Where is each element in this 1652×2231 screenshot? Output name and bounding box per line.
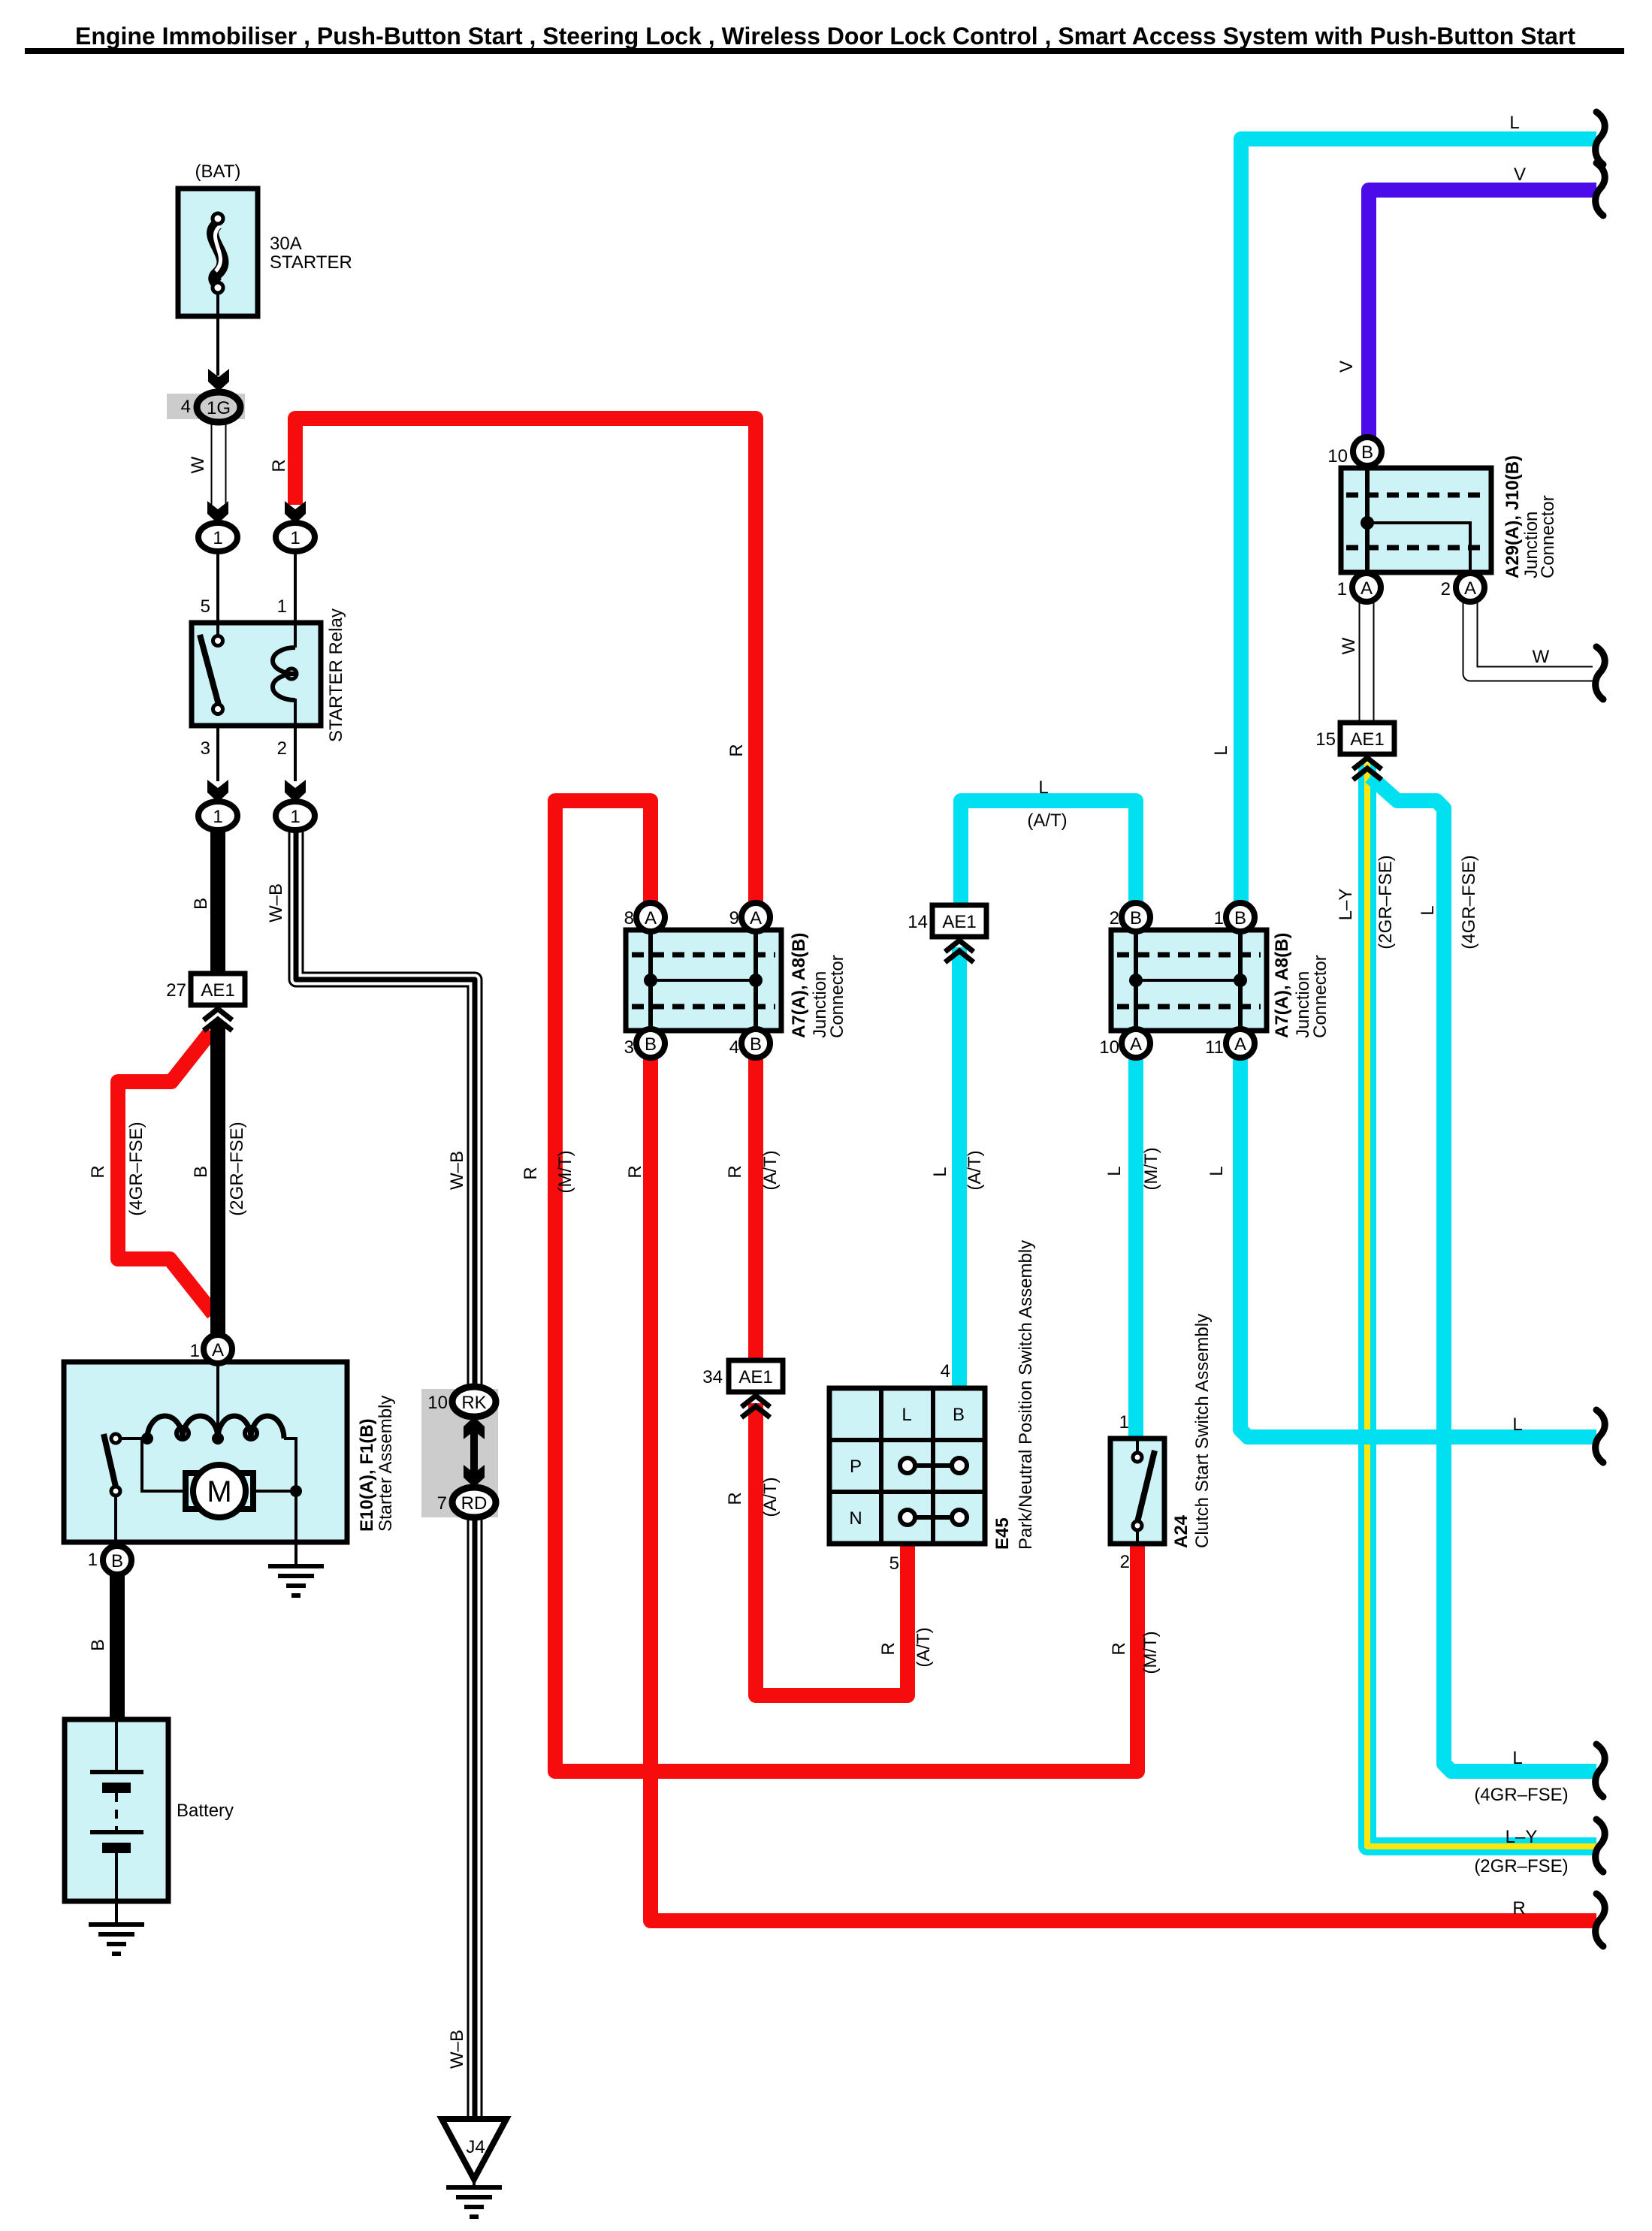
svg-text:AE1: AE1 xyxy=(942,912,976,932)
svg-text:Connector: Connector xyxy=(1310,955,1330,1038)
svg-text:L: L xyxy=(1509,113,1519,133)
svg-text:1: 1 xyxy=(1214,908,1224,928)
svg-text:Engine Immobiliser , Push-Butt: Engine Immobiliser , Push-Button Start ,… xyxy=(75,23,1575,50)
svg-text:R: R xyxy=(625,1165,645,1178)
svg-text:B: B xyxy=(1361,442,1373,463)
svg-text:4: 4 xyxy=(941,1361,950,1381)
svg-text:B: B xyxy=(1234,908,1246,928)
svg-text:A7(A), A8(B): A7(A), A8(B) xyxy=(789,933,809,1038)
svg-text:M: M xyxy=(207,1475,231,1508)
svg-text:B: B xyxy=(191,1166,211,1178)
svg-text:(A/T): (A/T) xyxy=(914,1627,934,1667)
svg-text:W–B: W–B xyxy=(447,1151,467,1190)
svg-text:3: 3 xyxy=(201,738,210,759)
svg-text:V: V xyxy=(1336,361,1357,373)
svg-text:STARTER: STARTER xyxy=(270,252,352,273)
svg-text:Starter Assembly: Starter Assembly xyxy=(376,1396,396,1532)
svg-text:1: 1 xyxy=(277,596,287,617)
svg-text:A: A xyxy=(1464,578,1476,599)
svg-text:B: B xyxy=(750,1034,762,1055)
svg-text:1: 1 xyxy=(213,528,222,548)
svg-text:R: R xyxy=(725,1492,745,1505)
svg-text:1G: 1G xyxy=(207,398,231,418)
svg-text:1: 1 xyxy=(213,807,222,827)
svg-text:AE1: AE1 xyxy=(738,1367,772,1387)
svg-text:B: B xyxy=(88,1639,108,1651)
svg-text:J4: J4 xyxy=(466,2137,485,2157)
svg-text:W–B: W–B xyxy=(266,883,286,922)
svg-text:(M/T): (M/T) xyxy=(1140,1631,1161,1674)
svg-text:B: B xyxy=(1130,908,1142,928)
svg-text:A: A xyxy=(212,1340,224,1360)
svg-text:L–Y: L–Y xyxy=(1506,1827,1538,1847)
svg-text:8: 8 xyxy=(624,908,634,928)
svg-text:A: A xyxy=(1361,578,1373,599)
svg-text:1: 1 xyxy=(1337,579,1347,599)
svg-text:A: A xyxy=(1234,1034,1246,1055)
svg-text:(BAT): (BAT) xyxy=(195,162,241,182)
svg-text:B: B xyxy=(111,1551,123,1571)
svg-text:V: V xyxy=(1514,165,1526,185)
svg-text:10: 10 xyxy=(1099,1037,1119,1058)
svg-text:A: A xyxy=(1130,1034,1142,1055)
svg-text:B: B xyxy=(645,1034,657,1055)
svg-text:3: 3 xyxy=(624,1037,634,1058)
svg-text:AE1: AE1 xyxy=(1350,729,1384,750)
svg-text:R: R xyxy=(726,744,747,756)
svg-text:L: L xyxy=(930,1167,950,1176)
svg-text:E45: E45 xyxy=(992,1517,1013,1550)
svg-text:L–Y: L–Y xyxy=(1336,889,1356,921)
svg-text:L: L xyxy=(1512,1748,1522,1768)
svg-text:A: A xyxy=(645,908,657,928)
svg-text:(4GR–FSE): (4GR–FSE) xyxy=(1459,855,1479,949)
svg-text:34: 34 xyxy=(702,1367,723,1387)
svg-text:AE1: AE1 xyxy=(201,980,234,1001)
svg-text:(2GR–FSE): (2GR–FSE) xyxy=(227,1122,247,1215)
svg-text:7: 7 xyxy=(437,1493,447,1514)
svg-text:27: 27 xyxy=(166,980,186,1001)
svg-text:L: L xyxy=(902,1405,911,1425)
svg-text:B: B xyxy=(191,898,211,910)
svg-text:L: L xyxy=(1207,1166,1227,1176)
svg-text:30A: 30A xyxy=(270,234,302,254)
svg-text:W: W xyxy=(188,456,208,473)
svg-text:2: 2 xyxy=(277,738,287,759)
svg-text:(4GR–FSE): (4GR–FSE) xyxy=(1474,1785,1568,1805)
svg-text:A24: A24 xyxy=(1171,1514,1191,1548)
svg-text:RK: RK xyxy=(461,1393,486,1413)
svg-text:4: 4 xyxy=(729,1037,739,1058)
svg-text:RD: RD xyxy=(461,1493,488,1514)
svg-text:(M/T): (M/T) xyxy=(555,1150,575,1193)
svg-text:L: L xyxy=(1104,1166,1125,1176)
svg-text:R: R xyxy=(269,459,289,472)
svg-text:L: L xyxy=(1512,1414,1522,1435)
svg-text:(A/T): (A/T) xyxy=(1027,811,1067,831)
svg-text:1: 1 xyxy=(190,1341,200,1361)
svg-text:R: R xyxy=(1109,1642,1129,1655)
svg-text:1: 1 xyxy=(290,528,300,548)
svg-text:R: R xyxy=(88,1165,108,1178)
svg-text:Park/Neutral Position Switch A: Park/Neutral Position Switch Assembly xyxy=(1016,1240,1036,1550)
svg-text:Connector: Connector xyxy=(827,955,847,1038)
svg-text:10: 10 xyxy=(427,1393,448,1413)
svg-text:A: A xyxy=(750,908,762,928)
svg-text:14: 14 xyxy=(908,912,928,932)
svg-text:Connector: Connector xyxy=(1538,495,1558,578)
svg-text:(A/T): (A/T) xyxy=(965,1150,985,1190)
svg-text:A29(A), J10(B): A29(A), J10(B) xyxy=(1503,455,1523,578)
svg-text:R: R xyxy=(878,1642,898,1655)
svg-text:E10(A), F1(B): E10(A), F1(B) xyxy=(357,1418,377,1532)
svg-text:Clutch Start Switch Assembly: Clutch Start Switch Assembly xyxy=(1192,1314,1213,1548)
svg-text:9: 9 xyxy=(729,908,739,928)
svg-text:10: 10 xyxy=(1327,446,1348,466)
svg-text:4: 4 xyxy=(181,397,191,417)
svg-text:W: W xyxy=(1339,637,1359,654)
svg-text:B: B xyxy=(953,1405,965,1425)
svg-text:Battery: Battery xyxy=(177,1801,234,1821)
svg-text:2: 2 xyxy=(1441,579,1451,599)
svg-text:P: P xyxy=(850,1457,862,1477)
svg-text:1: 1 xyxy=(290,807,300,827)
svg-text:(A/T): (A/T) xyxy=(760,1477,781,1517)
svg-text:R: R xyxy=(725,1165,745,1178)
svg-text:(M/T): (M/T) xyxy=(1141,1147,1161,1190)
svg-text:(A/T): (A/T) xyxy=(760,1150,781,1190)
svg-text:15: 15 xyxy=(1315,729,1336,750)
svg-text:(2GR–FSE): (2GR–FSE) xyxy=(1376,855,1396,949)
svg-text:(4GR–FSE): (4GR–FSE) xyxy=(126,1122,146,1215)
svg-text:L: L xyxy=(1211,745,1231,755)
svg-text:5: 5 xyxy=(889,1553,899,1574)
svg-text:STARTER Relay: STARTER Relay xyxy=(326,608,346,742)
svg-text:W: W xyxy=(1533,647,1550,667)
svg-text:L: L xyxy=(1418,905,1438,915)
svg-text:(2GR–FSE): (2GR–FSE) xyxy=(1474,1856,1568,1876)
svg-text:1: 1 xyxy=(1119,1412,1129,1432)
svg-text:2: 2 xyxy=(1110,908,1119,928)
svg-text:11: 11 xyxy=(1205,1037,1224,1058)
svg-text:1: 1 xyxy=(88,1550,98,1570)
svg-text:W–B: W–B xyxy=(447,2030,467,2069)
svg-text:2: 2 xyxy=(1120,1552,1130,1572)
svg-text:N: N xyxy=(849,1508,862,1529)
svg-text:A7(A), A8(B): A7(A), A8(B) xyxy=(1272,933,1292,1038)
svg-text:R: R xyxy=(1512,1898,1525,1919)
svg-text:5: 5 xyxy=(201,596,210,617)
svg-text:R: R xyxy=(521,1167,541,1179)
svg-text:L: L xyxy=(1038,777,1048,798)
